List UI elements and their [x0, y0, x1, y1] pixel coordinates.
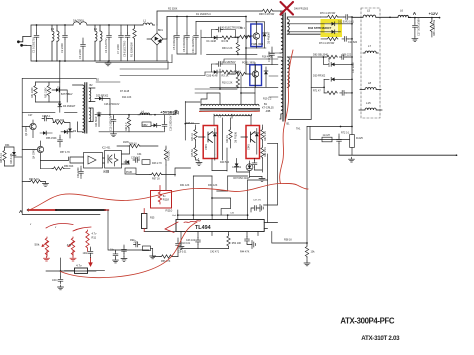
svg-text:R70 4.3/0.5W: R70 4.3/0.5W	[320, 12, 336, 15]
transformer T2 core	[85, 83, 87, 133]
diode row2 (loop with row1)	[323, 57, 352, 64]
svg-text:R3 1K: R3 1K	[222, 74, 229, 77]
capacitor C5 bank	[175, 33, 180, 40]
svg-text:R71 47: R71 47	[313, 90, 321, 93]
svg-text:C37 2200: C37 2200	[352, 62, 355, 73]
svg-text:R40 152K: R40 152K	[168, 150, 171, 161]
svg-text:v: v	[30, 223, 32, 226]
extra density labels	[5, 8, 355, 254]
svg-text:R62 4.7: R62 4.7	[125, 122, 128, 131]
svg-text:Vref: Vref	[172, 214, 176, 217]
svg-text:C27: C27	[28, 114, 33, 117]
svg-text:C1 0.22/275V: C1 0.22/275V	[32, 37, 36, 53]
resistor R38	[128, 144, 140, 147]
svg-text:C47 471: C47 471	[253, 200, 262, 202]
svg-text:R67 1K: R67 1K	[152, 178, 160, 181]
ground rail 5vsb	[99, 131, 164, 133]
svg-text:D3 4N60AT: D3 4N60AT	[267, 31, 270, 44]
capacitor C3	[81, 42, 86, 49]
wire feed y=87.3	[311, 79, 324, 93]
svg-text:10n: 10n	[110, 249, 115, 252]
svg-text:D30 FR302: D30 FR302	[313, 75, 326, 78]
capacitor 27n + box resistor chain	[134, 242, 141, 247]
diode D52 zener	[248, 166, 252, 169]
red X over fuse wire	[281, 2, 294, 15]
potentiometer VR2 red	[68, 237, 75, 256]
svg-text:C945: C945	[248, 144, 251, 150]
long pink curve 3 vertical	[280, 50, 293, 184]
svg-text:R65 5.1K: R65 5.1K	[0, 153, 3, 163]
resistor 10k right	[305, 245, 308, 257]
svg-text:C945: C945	[205, 144, 208, 150]
capacitor C16b	[58, 138, 63, 145]
svg-text:L8: L8	[368, 81, 372, 85]
svg-text:C40 ELECTRO/50V: C40 ELECTRO/50V	[220, 26, 243, 29]
svg-text:+12V: +12V	[429, 11, 439, 16]
capacitor C6 bank	[185, 33, 190, 40]
resistor R46	[194, 128, 197, 140]
svg-text:R31 12K: R31 12K	[180, 184, 190, 187]
diode right of Q2	[264, 71, 268, 74]
sub circuit 2: C13 loop	[211, 64, 235, 72]
svg-text:C7 2200: C7 2200	[116, 44, 120, 54]
svg-text:PGB1 3905: PGB1 3905	[251, 44, 264, 46]
capacitor C1	[34, 33, 39, 40]
wire input rails	[31, 25, 167, 61]
1mmH inductor box	[322, 137, 332, 142]
svg-text:D1 1N4007x4: D1 1N4007x4	[196, 13, 211, 16]
svg-text:L2: L2	[94, 27, 98, 31]
diode D35 + label	[56, 88, 59, 92]
wire under IC	[181, 248, 229, 250]
svg-text:PGB1 3905: PGB1 3905	[242, 61, 256, 64]
row1 resistor + cap	[326, 55, 338, 58]
wire top inside	[36, 82, 60, 102]
diode D32b	[332, 30, 335, 34]
svg-text:BJT708EV: BJT708EV	[61, 93, 73, 96]
svg-text:C26 4700/10V: C26 4700/10V	[104, 103, 120, 106]
svg-text:R38 1K: R38 1K	[129, 143, 137, 146]
bridge rectifier BD1	[147, 17, 167, 61]
svg-text:C3 2200: C3 2200	[78, 49, 82, 59]
transformer T1 secondary winding	[287, 17, 320, 87]
svg-text:R30 2.2K: R30 2.2K	[222, 47, 233, 50]
resistor R74	[326, 37, 338, 40]
wire rail y=21.5	[196, 21, 240, 23]
svg-text:ATX-310T 2.03: ATX-310T 2.03	[361, 335, 400, 342]
capacitor sense	[337, 137, 342, 144]
junction + capacitor 100n below	[60, 270, 62, 272]
bottom-left small parts	[29, 180, 41, 183]
resistor R68	[261, 9, 273, 12]
T2 windings right	[89, 88, 95, 122]
svg-text:R90: R90	[130, 239, 135, 242]
transformer T1 core	[283, 13, 285, 121]
svg-text:D24 5819: D24 5819	[95, 116, 98, 127]
svg-text:R43 1K: R43 1K	[191, 133, 194, 141]
capacitor C10	[176, 241, 181, 248]
potentiometer VR1 red	[42, 237, 49, 256]
svg-text:TL494: TL494	[195, 225, 211, 231]
capacitor 100n	[88, 249, 93, 256]
svg-text:C36 222: C36 222	[342, 54, 352, 57]
resistor R1	[133, 27, 136, 39]
svg-text:R-025: R-025	[356, 137, 363, 140]
verticals right of boxes down	[264, 144, 278, 223]
svg-text:TH1: TH1	[296, 128, 301, 131]
resistor R3	[220, 70, 232, 73]
resistor R40	[164, 148, 167, 160]
svg-text:Q2 C945: Q2 C945	[25, 126, 28, 136]
box resistor 4.7v	[75, 268, 88, 273]
diode D32a	[332, 22, 335, 26]
right side loop	[264, 223, 277, 229]
right bus vertical	[351, 17, 353, 127]
svg-text:R55 300: R55 300	[55, 119, 65, 122]
resistor R53	[160, 255, 172, 258]
capacitor C40	[216, 27, 223, 32]
resistor R32	[229, 128, 232, 140]
resistor R54	[227, 235, 230, 247]
svg-text:D9: D9	[73, 130, 77, 133]
svg-text:R75 150: R75 150	[328, 57, 331, 67]
wire rail y=16.5	[167, 16, 246, 18]
svg-text:R45 5A: R45 5A	[191, 149, 194, 157]
wire +12V rail	[408, 17, 439, 19]
svg-text:A: A	[19, 209, 23, 215]
resistor R30 vertical	[236, 41, 239, 53]
red pen under T3 core	[200, 110, 260, 112]
diode row3	[324, 78, 352, 80]
svg-text:R72 0.1: R72 0.1	[341, 132, 350, 135]
svg-text:C8 ELECTRO: C8 ELECTRO	[123, 41, 127, 57]
red arrow down	[90, 258, 92, 263]
svg-text:R118: R118	[163, 198, 170, 202]
svg-text:C8: C8	[57, 87, 61, 90]
svg-text:R64: R64	[5, 144, 10, 147]
diode D23	[154, 123, 157, 127]
svg-text:D32 STPR1620CT: D32 STPR1620CT	[308, 26, 332, 30]
wires to T1 left	[246, 53, 280, 97]
rail 5vsb	[95, 114, 176, 116]
svg-text:L6: L6	[400, 9, 404, 13]
svg-text:R33 12K: R33 12K	[208, 184, 218, 187]
svg-text:R49 510: R49 510	[220, 161, 230, 164]
capacitor C28	[42, 116, 49, 121]
svg-text:R52 100K: R52 100K	[45, 87, 48, 98]
svg-text:R43 2.7K: R43 2.7K	[152, 162, 162, 165]
svg-text:R7 1K: R7 1K	[234, 71, 241, 74]
svg-text:PC2K: PC2K	[126, 171, 133, 174]
svg-text:4.7v: 4.7v	[76, 264, 82, 268]
resistor R67	[150, 173, 162, 176]
svg-text:R44 47K: R44 47K	[240, 251, 250, 254]
wire 5vsb right bus	[185, 102, 200, 141]
svg-text:L7: L7	[368, 44, 372, 48]
box MB2	[142, 122, 151, 127]
vertical from sense down	[306, 127, 308, 244]
svg-text:R11: R11	[92, 235, 97, 239]
svg-text:MB2: MB2	[143, 124, 149, 127]
svg-text:C6 1000/200V: C6 1000/200V	[182, 35, 186, 52]
svg-text:C32 2200: C32 2200	[77, 167, 80, 178]
wires blue area	[227, 17, 264, 75]
section frame	[22, 78, 166, 214]
capacitor C81	[252, 161, 257, 168]
wires feedback	[41, 157, 69, 169]
dashed box chokes	[361, 8, 380, 118]
svg-text:5v: 5v	[163, 194, 166, 198]
long pink curve 1	[28, 183, 308, 210]
svg-text:C42 471: C42 471	[210, 251, 220, 254]
svg-text:D22 4148: D22 4148	[207, 74, 218, 77]
svg-text:B1: B1	[287, 123, 291, 126]
red box Q4	[246, 126, 260, 159]
svg-text:L1: L1	[143, 19, 147, 23]
box PC2K	[125, 168, 136, 174]
inductor L3 common mode choke	[52, 25, 59, 61]
svg-text:C35 102: C35 102	[131, 157, 141, 160]
svg-text:C28 5.1: C28 5.1	[42, 115, 51, 118]
diodes small	[43, 131, 46, 135]
svg-text:C17 1000U/16V: C17 1000U/16V	[418, 18, 421, 36]
diode D6	[58, 104, 62, 107]
op-amp IC TL494 body	[176, 220, 264, 232]
svg-text:D6 4N60AT: D6 4N60AT	[63, 105, 76, 108]
resistor R7	[234, 72, 246, 75]
red box Q3	[203, 126, 217, 159]
svg-text:C44 102: C44 102	[232, 166, 242, 169]
capacitor C31 bank	[194, 33, 199, 40]
ground below filter	[105, 61, 111, 66]
top winding row	[201, 104, 259, 106]
svg-text:C9 0.01: C9 0.01	[178, 251, 187, 254]
transistor Q4	[241, 132, 255, 143]
resistor red R117	[86, 230, 89, 251]
svg-text:R32 2K: R32 2K	[226, 135, 229, 143]
svg-text:100n: 100n	[83, 252, 89, 255]
svg-text:ATX-300P4-PFC: ATX-300P4-PFC	[340, 317, 395, 326]
ground under box1	[196, 161, 202, 166]
svg-text:R60 5.1K: R60 5.1K	[29, 178, 39, 181]
wires to opto	[70, 157, 105, 163]
svg-text:D33 4148: D33 4148	[10, 153, 13, 164]
resistor R6	[238, 35, 250, 38]
svg-text:R74 4.3/0.5W: R74 4.3/0.5W	[319, 42, 335, 45]
svg-text:1mmH: 1mmH	[323, 134, 331, 137]
wire long right	[339, 154, 457, 156]
drop wire from filter	[59, 61, 61, 102]
svg-text:R35: R35	[150, 217, 155, 220]
left edge resistors	[3, 149, 6, 161]
capacitor C2	[63, 33, 68, 40]
svg-text:R54 10K: R54 10K	[232, 242, 242, 245]
TL431 box	[84, 153, 103, 169]
resistor R62	[127, 116, 130, 128]
svg-text:C10 0.01: C10 0.01	[181, 242, 191, 245]
svg-text:-03B: -03B	[265, 110, 271, 113]
wire vertical x=108	[108, 210, 149, 250]
pins bottom	[181, 232, 258, 245]
wire top rail y=11	[157, 11, 283, 25]
svg-text:C5 100U/1W: C5 100U/1W	[172, 35, 176, 50]
svg-text:R2 330K: R2 330K	[168, 8, 178, 11]
wire bottom rail	[207, 53, 238, 55]
svg-text:D7 4148: D7 4148	[120, 90, 130, 93]
capacitor C17	[413, 23, 418, 30]
blue box Q2	[250, 65, 262, 86]
svg-text:D83 SBL3040: D83 SBL3040	[313, 54, 329, 57]
diode right of Q1	[263, 33, 267, 36]
resistor R81	[261, 128, 264, 140]
svg-text:4.7v: 4.7v	[92, 232, 98, 236]
svg-text:R51 2200: R51 2200	[31, 87, 34, 98]
diode in box Q3	[213, 133, 217, 136]
capacitor near IC right top + gnd	[252, 206, 259, 211]
heatsink outline	[287, 57, 311, 120]
red squiggle above TL494	[184, 221, 201, 223]
blue box Q1	[251, 24, 262, 47]
wires from boxes to blue transistors	[238, 38, 257, 55]
diode D97	[235, 164, 239, 167]
capacitor C13	[216, 62, 223, 67]
transistor Q3	[199, 132, 213, 143]
transistor Q4 lower	[37, 146, 43, 152]
capacitor 33n + gnd	[122, 247, 127, 254]
fuse F1	[73, 22, 87, 25]
svg-text:R6 1: R6 1	[240, 28, 246, 30]
svg-text:R82 2.2K: R82 2.2K	[264, 147, 267, 157]
capacitor C32	[79, 169, 84, 176]
transformer T1 primary winding	[278, 11, 283, 119]
capacitor + gnd right below	[245, 237, 250, 244]
svg-text:B2: B2	[90, 84, 94, 87]
svg-text:D97 D52 4148: D97 D52 4148	[233, 177, 249, 180]
wire bottom junction	[307, 126, 352, 128]
AC plug	[17, 36, 31, 46]
svg-text:D8 FR306: D8 FR306	[235, 131, 238, 143]
capacitor C8	[125, 33, 130, 40]
secondary taps	[287, 24, 321, 32]
resistor R4	[220, 36, 232, 39]
red connection wires	[46, 224, 91, 231]
resistor R51	[34, 84, 37, 96]
svg-text:C34: C34	[137, 153, 142, 156]
resistor R-025 box	[350, 135, 355, 148]
ground C17	[412, 37, 418, 42]
top taps	[201, 89, 255, 105]
svg-text:R18 470K: R18 470K	[262, 56, 273, 59]
svg-text:10k: 10k	[311, 251, 316, 254]
resistor R52	[47, 84, 50, 96]
yellow highlight box D32	[323, 21, 341, 35]
svg-text:4N35: 4N35	[123, 141, 129, 144]
ground 10k	[304, 261, 310, 266]
svg-text:L15: L15	[366, 101, 371, 105]
capacitor C7	[119, 33, 124, 40]
capacitor C43	[196, 238, 201, 245]
ground left below	[178, 245, 184, 250]
svg-text:R68 3.3/0.5W: R68 3.3/0.5W	[259, 13, 275, 16]
svg-text:47k: 47k	[67, 243, 72, 247]
svg-text:B2: B2	[96, 79, 100, 82]
svg-text:C16 1000/16V: C16 1000/16V	[170, 115, 173, 131]
svg-text:R1 620K/1W: R1 620K/1W	[130, 42, 134, 57]
bottom winding row	[214, 114, 252, 116]
svg-text:R4 39: R4 39	[222, 40, 229, 43]
svg-text:v: v	[55, 226, 57, 229]
svg-text:A: A	[413, 11, 417, 17]
capacitor C35	[133, 158, 140, 163]
svg-text:BD1: BD1	[158, 29, 163, 32]
svg-text:R10 2.2K: R10 2.2K	[222, 81, 233, 84]
svg-text:L5: L5	[367, 9, 371, 13]
capacitor C16	[162, 122, 167, 129]
inductor L1	[141, 23, 155, 25]
resistor R41 box	[142, 160, 150, 165]
svg-text:D25 FR302: D25 FR302	[96, 95, 109, 98]
svg-text:C14 820: C14 820	[348, 41, 358, 44]
svg-text:R110: R110	[166, 209, 173, 213]
diode D1	[214, 36, 217, 40]
black box resistor below red box	[142, 214, 147, 229]
diode D9	[68, 129, 72, 132]
svg-text:C15 1000/10V: C15 1000/10V	[110, 115, 113, 131]
red box annotation R118	[151, 191, 172, 209]
feed rail above IC	[178, 214, 248, 216]
ground sense	[349, 157, 355, 162]
svg-text:R19 2.2: R19 2.2	[263, 98, 272, 101]
diode D12	[126, 160, 129, 164]
resistor R82	[261, 146, 264, 158]
red strokes crossing IC left	[165, 222, 178, 233]
capacitor C15	[111, 117, 116, 124]
svg-text:C45: C45	[230, 213, 235, 215]
svg-text:Q4 C945: Q4 C945	[33, 149, 36, 159]
bus into IC left	[144, 231, 176, 233]
sub circuit 1: C40 loop	[211, 30, 235, 38]
svg-text:100n: 100n	[52, 279, 58, 282]
svg-text:5A/250V: 5A/250V	[73, 19, 84, 23]
svg-text:C2 2200: C2 2200	[60, 43, 64, 53]
resistor R36	[52, 167, 64, 170]
svg-text:R56 150K: R56 150K	[46, 137, 57, 140]
capacitor 10n + gnd	[113, 252, 118, 259]
svg-text:D1 4148: D1 4148	[207, 40, 217, 43]
capacitor C12	[270, 51, 275, 58]
diode D24	[97, 113, 101, 116]
svg-text:C4 0.1/275V: C4 0.1/275V	[104, 38, 108, 53]
svg-text:R57 4.7K: R57 4.7K	[60, 151, 70, 154]
diode in box Q4	[255, 133, 259, 136]
svg-text:L3: L3	[51, 27, 55, 31]
svg-text:IC2 431: IC2 431	[102, 147, 111, 150]
svg-text:光耦: 光耦	[103, 169, 109, 174]
T2 windings left	[73, 85, 85, 133]
resistor R55	[53, 121, 65, 124]
T3 core	[200, 108, 260, 110]
row4 resistor + cap	[326, 91, 338, 94]
resistor R10 vertical	[236, 76, 239, 88]
svg-text:R81 2.2K: R81 2.2K	[264, 131, 267, 141]
svg-text:R14 10K: R14 10K	[122, 96, 132, 99]
svg-text:C13 2.2R/50V: C13 2.2R/50V	[220, 61, 236, 64]
svg-text:+5VSB(紫): +5VSB(紫)	[160, 110, 180, 115]
resistor R45	[194, 146, 197, 158]
svg-text:R58 1K: R58 1K	[284, 239, 292, 242]
opto box	[105, 151, 122, 169]
diode D22	[214, 70, 217, 74]
